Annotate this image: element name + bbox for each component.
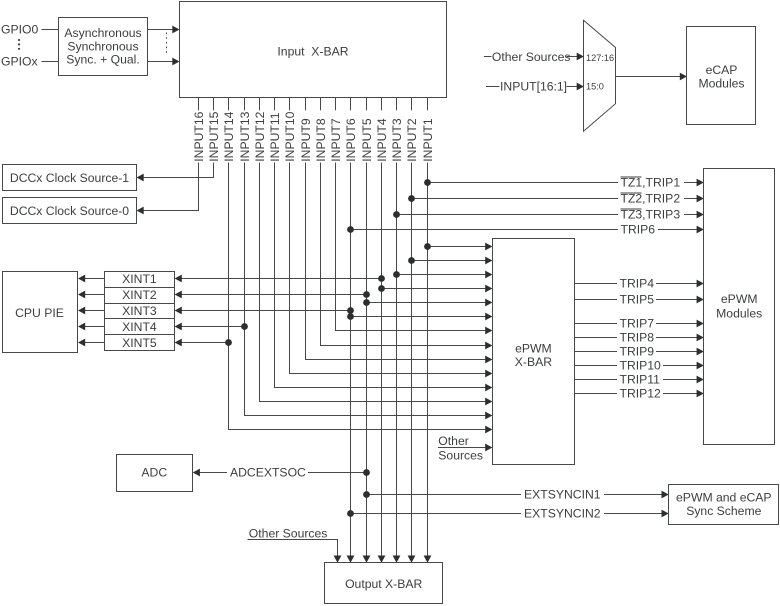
- svg-text:INPUT2: INPUT2: [405, 118, 419, 162]
- svg-text:INPUT7: INPUT7: [329, 118, 343, 162]
- svg-text:INPUT10: INPUT10: [283, 111, 297, 161]
- svg-text:Other: Other: [438, 434, 468, 448]
- svg-text:INPUT14: INPUT14: [222, 111, 236, 161]
- svg-text:Asynchronous: Asynchronous: [64, 26, 141, 40]
- svg-text:INPUT9: INPUT9: [299, 118, 313, 162]
- svg-text:EXTSYNCIN1: EXTSYNCIN1: [524, 488, 601, 502]
- svg-text:ePWM: ePWM: [721, 292, 758, 306]
- svg-text:XINT1: XINT1: [122, 272, 157, 286]
- svg-text:EXTSYNCIN2: EXTSYNCIN2: [524, 507, 601, 521]
- svg-text:TZ1,TRIP1: TZ1,TRIP1: [621, 176, 681, 190]
- svg-text:Input X-BAR: Input X-BAR: [277, 45, 348, 59]
- svg-text:INPUT[16:1]: INPUT[16:1]: [500, 79, 567, 93]
- svg-text:XINT5: XINT5: [122, 336, 157, 350]
- svg-text:Sync. + Qual.: Sync. + Qual.: [66, 53, 140, 67]
- svg-text:INPUT13: INPUT13: [238, 111, 252, 161]
- svg-text:Sources: Sources: [438, 448, 483, 462]
- svg-text:GPIO0: GPIO0: [1, 23, 38, 37]
- svg-text:Other Sources: Other Sources: [492, 50, 571, 64]
- svg-text:INPUT11: INPUT11: [268, 112, 282, 161]
- svg-text:TRIP6: TRIP6: [621, 223, 656, 237]
- svg-text:Other Sources: Other Sources: [249, 527, 328, 541]
- svg-text:INPUT6: INPUT6: [344, 118, 358, 162]
- svg-text:XINT2: XINT2: [122, 288, 157, 302]
- svg-text:eCAP: eCAP: [706, 63, 738, 77]
- svg-text:INPUT12: INPUT12: [253, 111, 267, 161]
- svg-text:XINT3: XINT3: [122, 304, 157, 318]
- svg-text:XINT4: XINT4: [122, 320, 157, 334]
- svg-text:ADCEXTSOC: ADCEXTSOC: [230, 466, 306, 480]
- svg-text:GPIOx: GPIOx: [1, 55, 38, 69]
- svg-text:Synchronous: Synchronous: [67, 39, 138, 53]
- svg-text:DCCx Clock Source-1: DCCx Clock Source-1: [10, 171, 129, 185]
- svg-text:DCCx Clock Source-0: DCCx Clock Source-0: [10, 204, 129, 218]
- svg-text:Modules: Modules: [698, 77, 744, 91]
- svg-text:Sync Scheme: Sync Scheme: [686, 504, 761, 518]
- svg-text:TZ3,TRIP3: TZ3,TRIP3: [621, 208, 681, 222]
- svg-text:INPUT5: INPUT5: [360, 118, 374, 162]
- svg-text:X-BAR: X-BAR: [515, 355, 552, 369]
- svg-text:TRIP7: TRIP7: [620, 317, 655, 331]
- svg-text:TRIP11: TRIP11: [620, 373, 661, 387]
- svg-text:TRIP12: TRIP12: [620, 387, 662, 401]
- svg-text:INPUT8: INPUT8: [314, 118, 328, 162]
- svg-text:TZ2,TRIP2: TZ2,TRIP2: [621, 192, 681, 206]
- svg-text:Output X-BAR: Output X-BAR: [345, 577, 422, 591]
- svg-text:INPUT15: INPUT15: [207, 111, 221, 161]
- svg-text:INPUT1: INPUT1: [421, 118, 435, 162]
- svg-text:ePWM and eCAP: ePWM and eCAP: [676, 491, 772, 505]
- svg-text:127:16: 127:16: [586, 53, 614, 63]
- svg-text:TRIP5: TRIP5: [620, 293, 655, 307]
- svg-text:INPUT16: INPUT16: [192, 111, 206, 161]
- svg-text:TRIP8: TRIP8: [620, 331, 655, 345]
- svg-text:CPU PIE: CPU PIE: [15, 306, 64, 320]
- svg-text:TRIP4: TRIP4: [620, 277, 655, 291]
- svg-text:Modules: Modules: [716, 307, 762, 321]
- svg-text:15:0: 15:0: [586, 81, 604, 91]
- svg-text:ePWM: ePWM: [515, 342, 552, 356]
- svg-text:ADC: ADC: [141, 466, 167, 480]
- svg-text:INPUT3: INPUT3: [390, 118, 404, 162]
- svg-text:TRIP10: TRIP10: [620, 359, 662, 373]
- svg-text:TRIP9: TRIP9: [620, 345, 655, 359]
- svg-text:INPUT4: INPUT4: [375, 118, 389, 162]
